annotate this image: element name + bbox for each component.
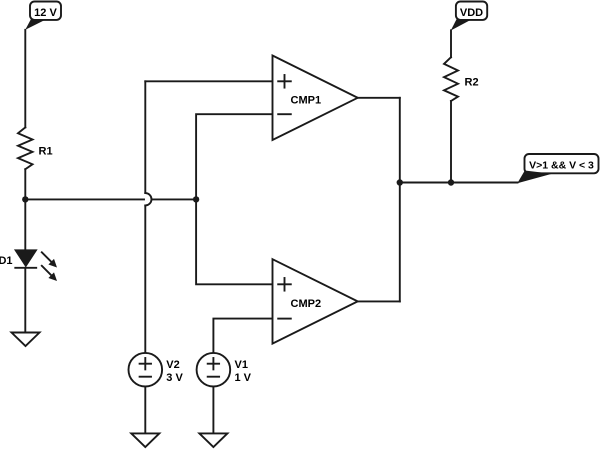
voltage source V1: [197, 353, 231, 387]
ground under V1: [199, 433, 227, 447]
op-amp CMP2: [273, 259, 358, 343]
op-amp CMP1: [273, 56, 358, 141]
wire VDD flag to R2 top: [450, 30, 452, 57]
svg-text:CMP1: CMP1: [291, 95, 322, 107]
resistor R1: [18, 127, 33, 169]
wire V2 to CMP1 + input (vertical): [144, 81, 146, 193]
svg-text:VDD: VDD: [460, 7, 483, 19]
net flag VDD: [451, 2, 487, 31]
net flag 12 V: [25, 2, 61, 30]
wire main horizontal right segment (hop to junction): [152, 198, 197, 200]
node junction dot at R1/LED tap: [22, 196, 28, 202]
node junction dot at R2 bottom: [448, 179, 454, 185]
wire CMP2 output: [358, 300, 400, 302]
svg-text:V>1 && V < 3: V>1 && V < 3: [529, 159, 594, 171]
wire junction to CMP1 - input: [196, 114, 272, 199]
resistor R2: [444, 57, 458, 101]
wire V2 vertical below hop: [144, 205, 146, 353]
wire R1 bottom to LED D1: [24, 169, 26, 250]
svg-text:R1: R1: [39, 146, 53, 158]
svg-text:1 V: 1 V: [235, 372, 252, 384]
wire V1 to ground: [212, 387, 214, 434]
voltage source V2: [129, 353, 163, 387]
wire CMP1 + input (horizontal): [145, 80, 272, 82]
wire CMP1 output: [358, 97, 400, 99]
svg-text:V2: V2: [166, 359, 179, 371]
ground under V2: [131, 433, 159, 447]
wire hop arc on V2 vertical wire: [145, 193, 151, 205]
wire LED to ground: [24, 268, 26, 333]
ground under D1: [12, 333, 40, 347]
wire main horizontal left segment (to hop): [25, 198, 144, 200]
LED D1: [15, 250, 57, 281]
svg-text:V1: V1: [235, 359, 248, 371]
wire output bus to flag: [400, 182, 518, 184]
wire V1 to CMP2 - input: [213, 319, 272, 353]
svg-text:D1: D1: [0, 255, 13, 267]
node junction dot at comparator input tap: [193, 196, 199, 202]
svg-text:12 V: 12 V: [34, 7, 57, 19]
wire 12V flag to R1 top: [24, 30, 26, 128]
wire junction to CMP2 + input: [196, 199, 272, 284]
node junction dot at output bus: [397, 179, 403, 185]
net flag output V>1 && V < 3: [517, 154, 598, 183]
svg-text:CMP2: CMP2: [291, 298, 322, 310]
wire R2 bottom to output bus: [450, 101, 452, 183]
svg-text:3 V: 3 V: [166, 372, 183, 384]
wire joining comparator outputs (vertical): [399, 98, 401, 302]
wire V2 to ground: [144, 387, 146, 434]
svg-text:R2: R2: [465, 76, 479, 88]
